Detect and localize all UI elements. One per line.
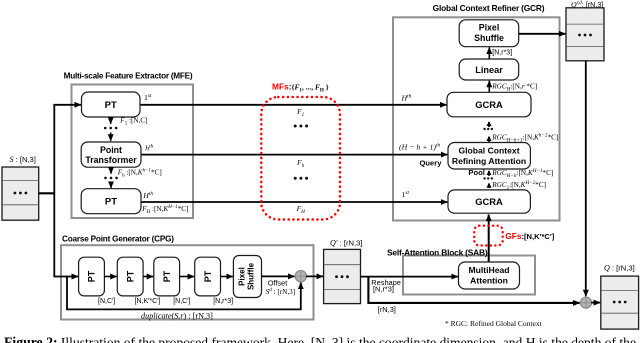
svg-text:S : [N,3]: S : [N,3]: [10, 155, 36, 164]
red dotted MFs box: [261, 97, 340, 220]
dots MFs 1: [294, 125, 308, 128]
svg-text:Hth: Hth: [142, 191, 153, 200]
dots MFE 1: [104, 127, 118, 130]
svg-text:RGCH−h+1:[N,Kh−2*C]: RGCH−h+1:[N,Kh−2*C]: [491, 133, 558, 144]
title GCR: [433, 3, 545, 13]
svg-text:Shuffle: Shuffle: [247, 262, 256, 290]
svg-text:Shuffle: Shuffle: [474, 33, 504, 43]
wire trunk to PT1: [53, 104, 81, 106]
wire reshape branch to plus2: [368, 277, 579, 303]
svg-text:GFs:[N,K′*C′]: GFs:[N,K′*C′]: [505, 231, 555, 241]
wire trunk to CPG PTa: [53, 276, 78, 278]
svg-text:RGCH:[N,r *C]: RGCH:[N,r *C]: [491, 82, 537, 92]
label GFs: [505, 231, 555, 241]
label [N,r*3] (CPG): [213, 298, 233, 305]
label S : [N,3]: [10, 155, 36, 164]
svg-text:Qr,d: [rN,3]: Qr,d: [rN,3]: [571, 0, 603, 9]
svg-text:Hth: Hth: [401, 94, 412, 103]
wire plus1 to Q': [306, 275, 323, 277]
svg-text:Refining Attention: Refining Attention: [452, 156, 526, 166]
svg-text:Self-Attention Block (SAB): Self-Attention Block (SAB): [387, 247, 488, 257]
box Linear: [459, 59, 519, 80]
svg-text:FH: FH: [296, 204, 306, 215]
svg-text:* RGC: Refined Global Context: * RGC: Refined Global Context: [445, 319, 543, 328]
svg-text:MultiHead: MultiHead: [468, 265, 509, 275]
svg-text:RGC1:[N,KH−2*C]: RGC1:[N,KH−2*C]: [491, 180, 546, 191]
box GCRA bottom: [448, 190, 530, 213]
box CPG PTd: [195, 257, 221, 296]
label RGC_1: [491, 180, 546, 191]
dots MFE 2: [104, 177, 118, 180]
container GCR box: [393, 17, 560, 220]
svg-text:Pixel: Pixel: [479, 23, 500, 33]
label Offset: [268, 278, 288, 287]
wire row1 F1: [140, 104, 446, 106]
svg-text:1st: 1st: [144, 93, 152, 102]
svg-text:Query: Query: [420, 159, 443, 168]
svg-text:[N,K′*C′]: [N,K′*C′]: [135, 298, 161, 305]
container MFE box: [72, 85, 194, 219]
wire duplicate branch: [67, 277, 301, 310]
wire arrow up to GCRA top: [488, 122, 490, 127]
box MultiHead Attention: [459, 262, 520, 289]
label FH :[N,K^H-1*C]: [141, 205, 188, 215]
wire MHA up to GCRA1: [488, 215, 490, 263]
container SAB box: [403, 256, 535, 295]
label RGC_H-h+1: [491, 133, 558, 144]
node Q stack: [601, 276, 639, 329]
wire arrow up from GCRA1: [488, 184, 490, 188]
wire PTd to PixelShuffle2: [220, 276, 233, 278]
label 1st (MFE): [144, 93, 152, 102]
label Fh :[N,K^h-1*C]: [117, 169, 162, 179]
svg-text:GCRA: GCRA: [475, 99, 503, 110]
label Query: [420, 159, 443, 168]
box PT3: [81, 189, 141, 214]
title SAB: [387, 247, 488, 257]
wire row2 Fh: [141, 154, 447, 156]
svg-text:[N,r*3]: [N,r*3]: [373, 284, 394, 293]
container CPG box: [61, 245, 314, 319]
svg-text:PT: PT: [203, 270, 213, 282]
wire dots to PT3: [110, 182, 112, 188]
wire dots to PTrans: [110, 133, 112, 141]
dots MFs 2: [294, 177, 308, 180]
plus node 1: [295, 271, 306, 282]
label Sd : [rN,3]: [266, 287, 296, 296]
node S stack: [2, 167, 39, 220]
svg-text:Sd : [rN,3]: Sd : [rN,3]: [266, 287, 296, 296]
red dotted GFs box: [474, 226, 502, 246]
svg-text:1st: 1st: [402, 190, 410, 199]
box CPG PTb: [117, 257, 143, 296]
svg-text:Fh :[N,Kh−1*C]: Fh :[N,Kh−1*C]: [117, 169, 162, 179]
svg-text:FH :[N,KH−1*C]: FH :[N,KH−1*C]: [141, 205, 188, 215]
svg-text:F1 :[N,C]: F1 :[N,C]: [119, 117, 147, 127]
label MFs: [272, 81, 329, 93]
label duplicate(S,r) : [rN,3]: [141, 311, 213, 320]
wire Q' to MHA: [361, 276, 458, 278]
label [N,K'*C']: [135, 298, 161, 305]
svg-text:(H − h + 1)th: (H − h + 1)th: [399, 143, 440, 152]
svg-text:[N,C′]: [N,C′]: [98, 298, 115, 305]
svg-text:PT: PT: [87, 270, 97, 282]
wire PTc to PTd: [180, 276, 195, 278]
label [N,C'] 1: [98, 298, 115, 305]
wire Qrd down to plus2: [585, 61, 587, 296]
title CPG: [62, 234, 174, 243]
node Q' stack: [324, 249, 361, 303]
label Pool: [468, 168, 484, 177]
svg-text:Fh: Fh: [296, 158, 305, 169]
svg-text:[N,C′]: [N,C′]: [173, 298, 190, 305]
svg-text:Transformer: Transformer: [85, 155, 137, 165]
svg-text:Pool: Pool: [468, 168, 484, 177]
label hth: [145, 144, 153, 153]
wire Linear to PixelShuffle: [488, 47, 490, 59]
caption figure 2: [4, 335, 636, 343]
label [rN,3] (bottom): [378, 305, 396, 314]
plus node 2: [581, 297, 592, 308]
wire PT1 down: [110, 117, 112, 124]
label RGC_H-h: [491, 168, 553, 179]
svg-text:Point: Point: [100, 145, 122, 155]
title MFE: [64, 72, 193, 81]
wire plus2 to Q: [591, 302, 600, 304]
label Q : [rN,3]: [604, 264, 635, 273]
svg-text:PT: PT: [162, 270, 172, 282]
wire arrow up to attention pool: [488, 171, 490, 176]
label RGC_H: [491, 82, 537, 92]
svg-text:Global Context Refiner (GCR): Global Context Refiner (GCR): [433, 3, 545, 13]
svg-text:hth: hth: [145, 144, 153, 153]
svg-text:RGCH−h:[N,KH−1*C]: RGCH−h:[N,KH−1*C]: [491, 168, 553, 179]
box CPG Pixel Shuffle: [233, 256, 261, 298]
label [N,C'] 2: [173, 298, 190, 305]
svg-text:PT: PT: [105, 197, 117, 208]
wire PTb to PTc: [143, 276, 153, 278]
label Reshape [N,r*3]: [371, 278, 401, 293]
wire PTa to PTb: [104, 276, 116, 278]
svg-text:Linear: Linear: [475, 65, 503, 75]
svg-text:PT: PT: [125, 270, 135, 282]
wire PTrans down: [110, 167, 112, 173]
label F1 :[N,C]: [119, 117, 147, 127]
box GCRA top: [447, 92, 531, 117]
svg-text:[N,r*3]: [N,r*3]: [213, 298, 233, 305]
svg-text:Multi-scale Feature Extractor: Multi-scale Feature Extractor (MFE): [64, 72, 193, 81]
label FH in MFs: [296, 204, 306, 215]
dots GCR 2: [483, 177, 493, 179]
label (H-h+1)th: [399, 143, 440, 152]
label Hth (GCR row1): [401, 94, 412, 103]
svg-text:PT: PT: [105, 100, 117, 111]
svg-text:Attention: Attention: [470, 275, 508, 285]
svg-text:duplicate(S,r) : [rN,3]: duplicate(S,r) : [rN,3]: [141, 311, 213, 320]
svg-text:[N,r*3]: [N,r*3]: [492, 50, 512, 57]
label Qrd : [rN,3]: [571, 0, 603, 9]
box Pixel Shuffle (GCR): [459, 20, 519, 47]
wire PixelShuffle2 to plus1: [262, 275, 295, 277]
svg-text:Pixel: Pixel: [238, 267, 247, 286]
dots GCR 1: [483, 128, 493, 130]
wire arrow from attention up: [488, 137, 490, 142]
box CPG PTa: [79, 257, 105, 296]
svg-text:Figure 2: Illustration of the: Figure 2: Illustration of the proposed f…: [4, 335, 636, 343]
label Fh in MFs: [296, 158, 305, 169]
svg-text:MFs:{F1, ..., FH }: MFs:{F1, ..., FH }: [272, 81, 329, 93]
note RGC: [445, 319, 543, 328]
wire trunk vertical: [53, 105, 55, 277]
label 1st (GCR row3): [402, 190, 410, 199]
wire row3 FH: [141, 201, 447, 203]
svg-text:[rN,3]: [rN,3]: [378, 305, 396, 314]
svg-text:Coarse Point Generator (CPG): Coarse Point Generator (CPG): [62, 234, 174, 243]
svg-text:F1: F1: [296, 107, 305, 118]
node Qrd stack: [566, 8, 604, 61]
label Hth (MFE): [142, 191, 153, 200]
wire S to trunk: [39, 192, 55, 194]
svg-text:Q : [rN,3]: Q : [rN,3]: [604, 264, 635, 273]
box PT1: [82, 92, 141, 117]
svg-text:GCRA: GCRA: [475, 196, 503, 207]
label Q' : [rN,3]: [330, 239, 362, 248]
svg-text:Global Context: Global Context: [458, 146, 519, 156]
box GC Refining Attention: [448, 143, 530, 170]
wire PixelShuffle to Qrd: [519, 33, 566, 35]
box Point Transformer: [81, 142, 141, 167]
wire GCRAtop to Linear: [488, 81, 490, 93]
box CPG PTc: [154, 257, 180, 296]
label F1 in MFs: [296, 107, 305, 118]
label [N,r*3] (GCR): [492, 50, 512, 57]
svg-text:Q′ : [rN,3]: Q′ : [rN,3]: [330, 239, 362, 248]
